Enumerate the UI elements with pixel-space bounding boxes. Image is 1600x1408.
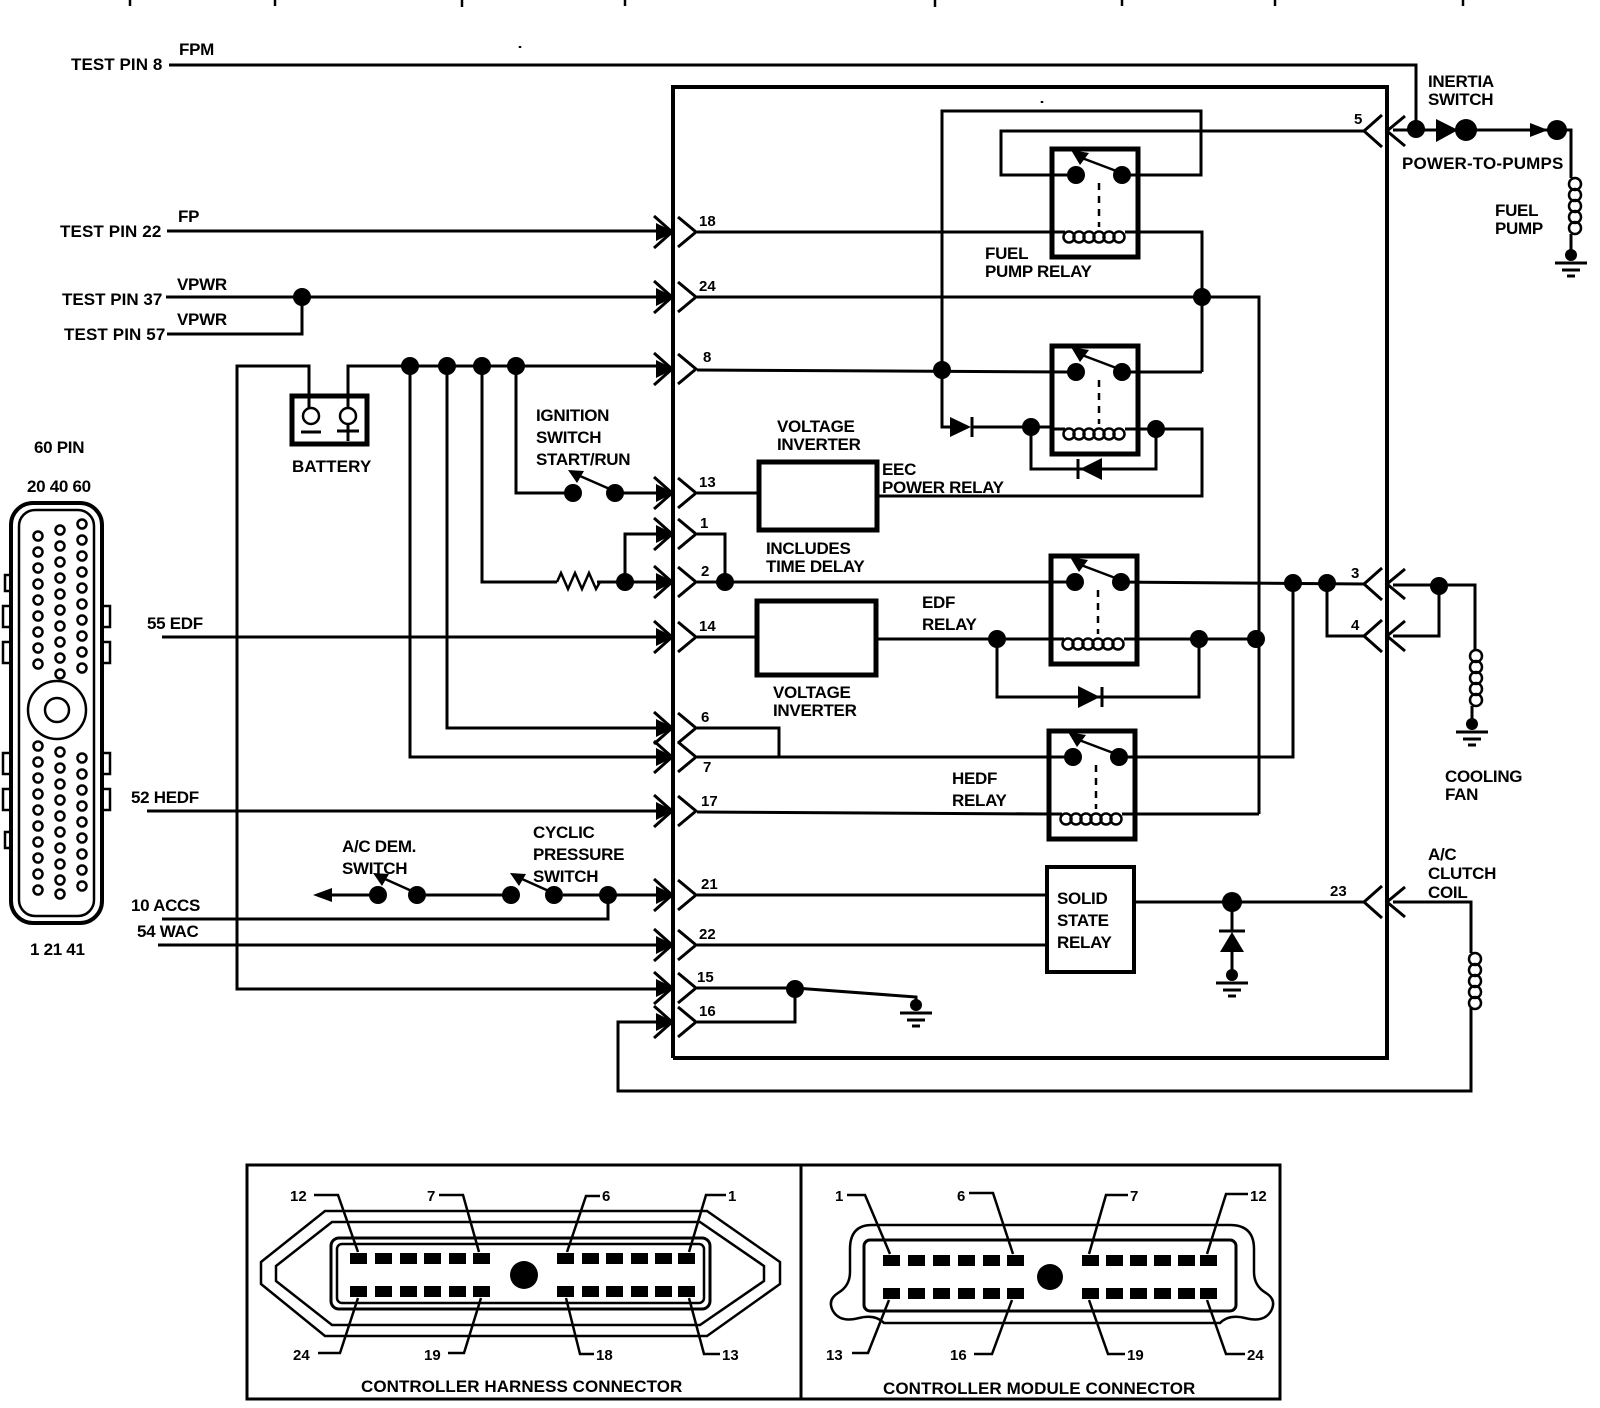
wire pin 4 outside jumper — [1393, 586, 1439, 636]
pin 6 — [654, 712, 696, 744]
junction dot pin 15/16 tie — [786, 980, 804, 998]
controller module connector insert — [864, 1240, 1236, 1311]
svg-text:TEST PIN 22: TEST PIN 22 — [60, 222, 161, 241]
inertia switch symbol — [1436, 119, 1477, 142]
voltage inverter U1 — [759, 462, 877, 530]
fuel pump relay K1 — [1052, 149, 1138, 257]
wire pin 17 inside to HEDF relay coil — [697, 812, 1049, 814]
svg-text:CYCLIC: CYCLIC — [533, 823, 595, 842]
wire cooling fan to ground — [1471, 706, 1474, 724]
wire bus to resistor line — [482, 366, 557, 582]
junction dot VPWR pin 24 — [1193, 288, 1211, 306]
pin 18 — [654, 216, 696, 248]
60 PIN connector pin holes — [34, 520, 87, 899]
wire EEC relay contact to VPWR junction — [1120, 371, 1202, 374]
wire solid state relay output to pin 23 — [1134, 901, 1364, 904]
svg-text:START/RUN: START/RUN — [536, 450, 630, 469]
svg-text:1: 1 — [728, 1188, 736, 1205]
junction dot VPWR tie — [293, 288, 311, 306]
A/C clutch coil L1 — [1469, 953, 1481, 1009]
pin 22 — [654, 929, 696, 961]
svg-text:1 21 41: 1 21 41 — [30, 940, 85, 959]
svg-text:SWITCH: SWITCH — [536, 428, 601, 447]
controller harness connector shell — [261, 1211, 780, 1336]
junction dot pin 2 inside — [716, 573, 734, 591]
svg-text:VPWR: VPWR — [177, 310, 227, 329]
battery B1 — [292, 396, 367, 444]
junction dot pin1/pin2 tie outside — [616, 573, 634, 591]
ground symbol below clamp diode — [1216, 969, 1248, 996]
junction dot EEC coil left loop — [1022, 418, 1040, 436]
wire EEC relay coil right to voltage inverter output — [877, 429, 1202, 496]
pin 21 — [654, 879, 696, 911]
svg-text:INVERTER: INVERTER — [773, 701, 857, 720]
svg-text:TEST PIN 8: TEST PIN 8 — [71, 55, 162, 74]
wire resistor to pin 2 — [597, 581, 658, 584]
wire fuel pump relay contact loop to VPWR net — [942, 111, 1201, 427]
svg-text:EEC: EEC — [882, 460, 916, 479]
svg-text:RELAY: RELAY — [952, 791, 1008, 810]
svg-text:BATTERY: BATTERY — [292, 457, 372, 476]
wire EDF relay contact to pin 3 — [1119, 582, 1364, 584]
resistor R1 — [557, 573, 600, 589]
pin 15 — [654, 972, 696, 1004]
junction dot bus branch pin 7 — [401, 357, 419, 375]
svg-text:COOLING: COOLING — [1445, 767, 1522, 786]
pin 2 — [654, 566, 696, 598]
svg-text:7: 7 — [703, 759, 711, 776]
pin 8 — [654, 353, 696, 385]
svg-text:4: 4 — [1351, 617, 1360, 634]
wire VPWR from TEST PIN 37 to pin 24 — [166, 296, 658, 299]
wire fuel pump relay coil right to VPWR vertical — [1138, 232, 1202, 372]
controller module connector center hole — [1037, 1264, 1063, 1290]
svg-text:24: 24 — [293, 1347, 310, 1364]
wire cyclic switch to pin 21 — [563, 894, 658, 897]
wire pin 16 outside loop to A/C clutch coil return — [618, 1008, 1471, 1091]
pin 14 — [654, 621, 696, 653]
svg-text:52 HEDF: 52 HEDF — [131, 788, 199, 807]
wire battery positive bus to pin 8 — [348, 366, 658, 408]
wire pin 6 inside jumper to pin 7 — [697, 728, 779, 757]
junction dot clamp diode branch — [1222, 892, 1242, 912]
svg-text:IGNITION: IGNITION — [536, 406, 609, 425]
pin 16 — [654, 1006, 696, 1038]
wire pin 3 net down to HEDF relay contact — [1119, 583, 1293, 757]
svg-text:6: 6 — [957, 1188, 965, 1205]
wire VPWR from TEST PIN 57 joining TEST PIN 37 line — [167, 297, 302, 334]
wire pin 5 inside to fuel pump relay contact — [1001, 131, 1364, 175]
svg-text:VOLTAGE: VOLTAGE — [773, 683, 851, 702]
junction dot pin 8 line — [933, 361, 951, 379]
junction dot EDF coil right loop — [1190, 630, 1208, 648]
controller harness connector pins bottom row — [350, 1286, 695, 1297]
wire pin 7 inside to HEDF relay contact — [697, 756, 1066, 759]
svg-text:A/C: A/C — [1428, 845, 1456, 864]
wire EDF relay coil right to VPWR vertical — [1137, 638, 1259, 641]
wire bus to pin 6 — [447, 366, 658, 728]
junction dot EEC coil right loop — [1147, 420, 1165, 438]
bottom connector diagram outer box — [247, 1165, 1280, 1399]
svg-text:6: 6 — [602, 1188, 610, 1205]
pin 1 — [654, 518, 696, 550]
60 PIN connector center bolt — [28, 681, 86, 739]
power-to-pumps node dot — [1547, 120, 1567, 140]
pin 5 — [1364, 115, 1405, 147]
svg-text:22: 22 — [699, 926, 716, 943]
svg-text:6: 6 — [701, 709, 709, 726]
svg-text:54 WAC: 54 WAC — [137, 922, 199, 941]
wire pin 8 inside to EEC power relay contact — [697, 370, 1068, 372]
wire pins 15/16 inside to signal ground — [697, 988, 916, 1004]
wire A/C line left arrow — [313, 888, 332, 902]
wire pin 4 inside branch — [1327, 583, 1364, 636]
wire battery negative to pin 15 (long left vertical) — [237, 366, 658, 989]
wire ignition switch to pin 13 — [622, 492, 658, 495]
svg-text:12: 12 — [1250, 1188, 1267, 1205]
svg-text:STATE: STATE — [1057, 911, 1109, 930]
svg-text:18: 18 — [699, 213, 716, 230]
svg-text:TEST PIN 37: TEST PIN 37 — [62, 290, 162, 309]
power-to-pumps arrow — [1530, 123, 1548, 137]
cyclic pressure switch S3 — [502, 873, 563, 904]
svg-text:EDF: EDF — [922, 593, 955, 612]
wire pin 2 inside to EDF relay contact — [697, 581, 1068, 584]
svg-text:19: 19 — [1127, 1347, 1144, 1364]
svg-text:SOLID: SOLID — [1057, 889, 1107, 908]
svg-text:FPM: FPM — [179, 40, 214, 59]
svg-text:1: 1 — [700, 515, 708, 532]
wire bus to ignition switch — [516, 366, 566, 493]
svg-text:14: 14 — [699, 618, 716, 635]
svg-text:16: 16 — [699, 1003, 716, 1020]
wire pin 14 inside to voltage inverter 2 — [697, 636, 757, 639]
wire 54 WAC to pin 22 — [158, 944, 658, 947]
diode D2 flyback across EEC relay coil — [1031, 427, 1156, 480]
voltage inverter U2 — [757, 601, 876, 675]
60 PIN connector body — [3, 503, 110, 923]
svg-text:CLUTCH: CLUTCH — [1428, 864, 1496, 883]
junction dot pin3/pin4 outside — [1430, 577, 1448, 595]
junction dot EDF coil VPWR — [1247, 630, 1265, 648]
svg-text:21: 21 — [701, 876, 718, 893]
wire pin 1 inside jumper — [697, 534, 725, 582]
ground symbol cooling fan — [1456, 718, 1488, 745]
pin 7 — [654, 741, 696, 773]
wire pin 22 inside to solid state relay — [697, 944, 1047, 947]
junction dot bus branch pin 6 — [438, 357, 456, 375]
controller module connector pins top row — [883, 1255, 1217, 1266]
svg-text:20 40 60: 20 40 60 — [27, 477, 91, 496]
controller module connector shell — [831, 1225, 1273, 1323]
svg-text:RELAY: RELAY — [1057, 933, 1113, 952]
wire pin 16 inside jumper — [697, 989, 795, 1022]
junction dot pin3/HEDF branch — [1284, 574, 1302, 592]
ignition switch S1 — [564, 470, 624, 502]
wire pin 5 outside to fuel pump — [1393, 130, 1571, 178]
svg-text:5: 5 — [1354, 111, 1362, 128]
svg-text:1: 1 — [835, 1188, 843, 1205]
svg-text:FP: FP — [178, 207, 199, 226]
wire 10 ACCS joining switch line — [162, 895, 608, 919]
wire pin 3 outside to cooling fan — [1393, 585, 1475, 650]
cooling fan motor coil M2 — [1470, 650, 1482, 706]
pin 4 — [1364, 620, 1405, 652]
junction dot ACCS tie — [599, 886, 617, 904]
controller harness connector insert — [331, 1238, 710, 1309]
svg-text:60 PIN: 60 PIN — [34, 438, 84, 457]
svg-text:19: 19 — [424, 1347, 441, 1364]
svg-text:PUMP RELAY: PUMP RELAY — [985, 262, 1093, 281]
controller module connector pins bottom row — [883, 1288, 1217, 1299]
svg-text:2: 2 — [701, 563, 709, 580]
wire 55 EDF to pin 14 — [162, 636, 658, 639]
svg-text:HEDF: HEDF — [952, 769, 997, 788]
svg-text:13: 13 — [722, 1347, 739, 1364]
wire between switches — [426, 894, 503, 897]
svg-text:24: 24 — [1247, 1347, 1264, 1364]
svg-text:COIL: COIL — [1428, 883, 1467, 902]
wire HEDF relay coil right to VPWR vertical — [1135, 813, 1259, 816]
diode D3 flyback across EDF relay coil — [997, 639, 1199, 708]
junction dot bus branch resistor — [473, 357, 491, 375]
wire FP from TEST PIN 22 to pin 18 — [167, 230, 658, 233]
ground symbol fuel pump — [1555, 249, 1587, 276]
wire pin 21 inside to solid state relay — [697, 894, 1047, 897]
wire pin 18 inside to fuel pump relay coil — [697, 231, 1052, 234]
svg-text:INCLUDES: INCLUDES — [766, 539, 851, 558]
junction dot bus branch ignition — [507, 357, 525, 375]
diode D1 feeding EEC power relay coil — [950, 417, 1052, 437]
svg-text:7: 7 — [427, 1188, 435, 1205]
page border tick marks — [130, 0, 1463, 103]
svg-text:TIME DELAY: TIME DELAY — [766, 557, 865, 576]
svg-text:7: 7 — [1130, 1188, 1138, 1205]
svg-text:23: 23 — [1330, 883, 1347, 900]
controller harness connector center hole — [510, 1261, 538, 1289]
svg-text:VOLTAGE: VOLTAGE — [777, 417, 855, 436]
svg-text:INERTIA: INERTIA — [1428, 72, 1494, 91]
svg-text:SWITCH: SWITCH — [533, 867, 598, 886]
svg-text:17: 17 — [701, 793, 718, 810]
A/C demand switch S2 — [369, 873, 426, 904]
svg-text:TEST PIN 57: TEST PIN 57 — [64, 325, 165, 344]
EDF relay K3 — [1051, 556, 1137, 664]
svg-text:A/C DEM.: A/C DEM. — [342, 837, 416, 856]
svg-text:CONTROLLER HARNESS CONNECTOR: CONTROLLER HARNESS CONNECTOR — [361, 1377, 682, 1396]
svg-text:INVERTER: INVERTER — [777, 435, 861, 454]
wire bus to pin 7 — [410, 366, 658, 757]
fuel pump motor coil M1 — [1569, 178, 1581, 234]
svg-text:13: 13 — [826, 1347, 843, 1364]
EEC power relay K2 — [1052, 346, 1138, 454]
bottom connector diagram divider — [800, 1165, 803, 1399]
wire pin 24 inside VPWR to relay coils vertical — [697, 297, 1259, 814]
svg-text:24: 24 — [699, 278, 716, 295]
pin 23 — [1364, 886, 1405, 918]
controller harness connector pins top row — [350, 1253, 695, 1264]
svg-text:CONTROLLER MODULE CONNECTOR: CONTROLLER MODULE CONNECTOR — [883, 1379, 1195, 1398]
svg-text:PUMP: PUMP — [1495, 219, 1543, 238]
svg-text:RELAY: RELAY — [922, 615, 978, 634]
pin 3 — [1364, 568, 1405, 600]
svg-text:15: 15 — [697, 969, 714, 986]
svg-text:FUEL: FUEL — [985, 244, 1028, 263]
diode D4 clamp to ground — [1219, 902, 1245, 976]
wire pin 13 inside to voltage inverter — [697, 492, 759, 495]
svg-text:12: 12 — [290, 1188, 307, 1205]
solid state relay U3 — [1047, 867, 1134, 972]
wire voltage inverter 2 output to EDF relay coil — [876, 638, 1051, 641]
svg-text:PRESSURE: PRESSURE — [533, 845, 624, 864]
svg-text:55 EDF: 55 EDF — [147, 614, 203, 633]
svg-text:18: 18 — [596, 1347, 613, 1364]
wire fuel pump to ground — [1570, 234, 1573, 255]
svg-text:8: 8 — [703, 349, 711, 366]
wire FPM from TEST PIN 8 to pin 5 junction — [169, 65, 1416, 129]
pin 13 — [654, 477, 696, 509]
junction dot EDF coil left loop — [988, 630, 1006, 648]
wire pin 23 outside to A/C clutch coil — [1393, 902, 1471, 953]
svg-text:3: 3 — [1351, 565, 1359, 582]
pin 24 — [654, 281, 696, 313]
svg-text:SWITCH: SWITCH — [1428, 90, 1493, 109]
svg-text:FAN: FAN — [1445, 785, 1478, 804]
pin 17 — [654, 795, 696, 827]
wire 52 HEDF to pin 17 — [147, 810, 658, 813]
junction dot FPM / pin 5 — [1407, 120, 1425, 138]
junction dot pin4 branch — [1318, 574, 1336, 592]
wire pin 1 jumper outside — [625, 534, 658, 582]
svg-text:POWER RELAY: POWER RELAY — [882, 478, 1005, 497]
svg-text:10 ACCS: 10 ACCS — [131, 896, 200, 915]
svg-text:POWER-TO-PUMPS: POWER-TO-PUMPS — [1402, 154, 1563, 173]
EEC module box outline — [673, 87, 1387, 1058]
svg-text:16: 16 — [950, 1347, 967, 1364]
HEDF relay K4 — [1049, 731, 1135, 839]
svg-text:VPWR: VPWR — [177, 275, 227, 294]
svg-text:13: 13 — [699, 474, 716, 491]
ground symbol signal ground — [900, 999, 932, 1026]
svg-text:FUEL: FUEL — [1495, 201, 1538, 220]
